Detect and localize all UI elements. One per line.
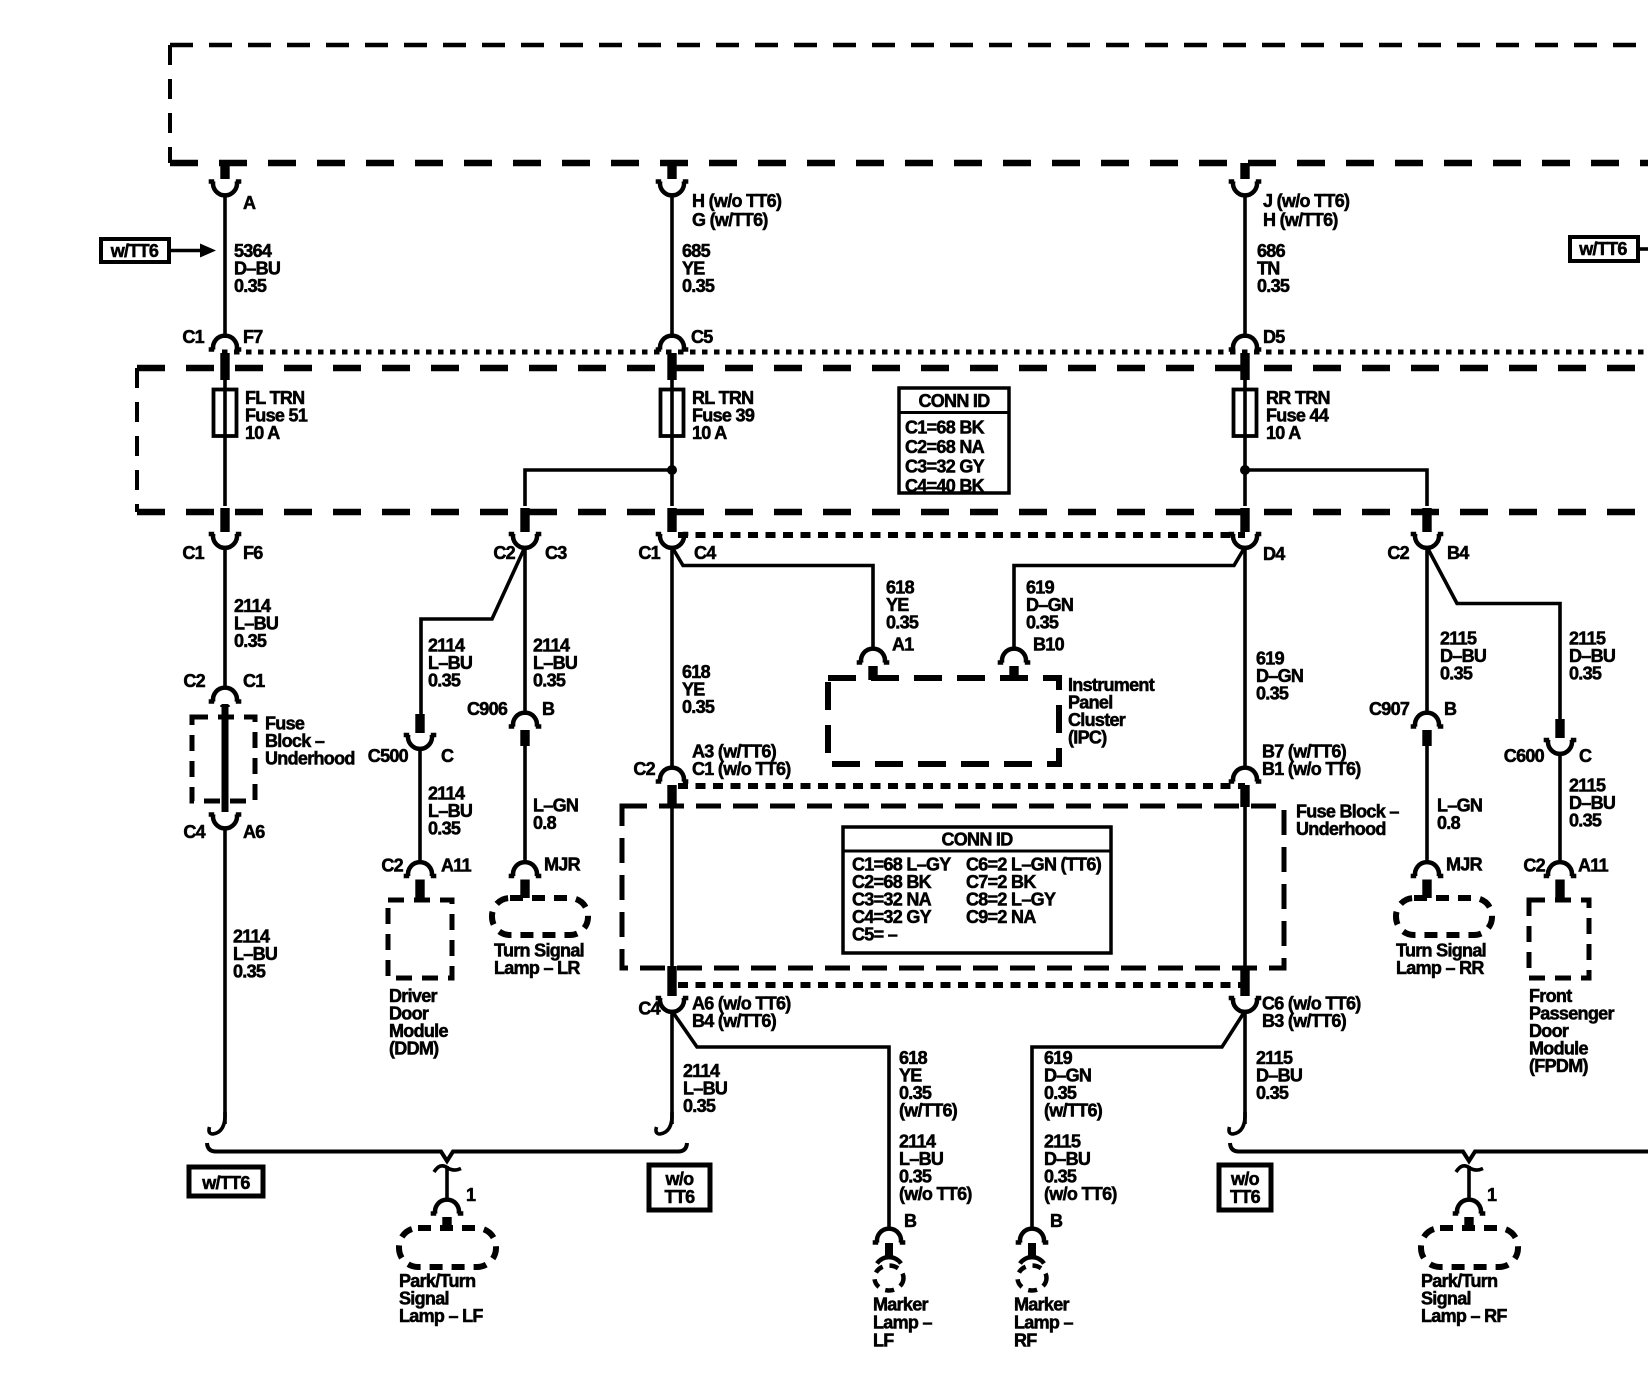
connector 1 (park RF) bbox=[1453, 1200, 1486, 1230]
svg-text:C2: C2 bbox=[493, 543, 515, 563]
svg-text:Marker: Marker bbox=[873, 1295, 929, 1315]
value label 2114 L-BU 0.35 (w/o TT6) marker LF bbox=[899, 1132, 972, 1205]
wire 2115 D-BU to bottom (right center) bbox=[1243, 1011, 1247, 1124]
value label 619 D-GN 0.35 (IPC branch) bbox=[1026, 578, 1073, 633]
value label 2114 L-BU 0.35 (DDM) bbox=[428, 784, 472, 839]
top harness dashed box left edge bbox=[168, 45, 172, 163]
wire 2114 L-BU to DDM bbox=[418, 748, 422, 864]
svg-text:0.35: 0.35 bbox=[533, 671, 566, 691]
svg-text:10 A: 10 A bbox=[692, 423, 727, 443]
svg-text:D5: D5 bbox=[1263, 327, 1285, 347]
CONN ID table (body harness) bbox=[843, 827, 1111, 953]
value label 618 YE 0.35 (mid) bbox=[682, 662, 715, 717]
svg-text:0.35: 0.35 bbox=[1256, 684, 1289, 704]
svg-text:C906: C906 bbox=[467, 699, 508, 719]
connector B7/B1 bbox=[1229, 768, 1262, 807]
connector pin B10 bbox=[998, 649, 1031, 680]
svg-text:10 A: 10 A bbox=[1266, 423, 1301, 443]
svg-text:0.8: 0.8 bbox=[1437, 813, 1461, 833]
value label 619 D-GN 0.35 (mid) bbox=[1256, 649, 1303, 704]
label RR TRN Fuse 44 10 A bbox=[1266, 388, 1330, 443]
CONN ID table (fuse block) bbox=[899, 388, 1009, 496]
labels C2 / C1 bbox=[183, 671, 265, 691]
svg-text:F6: F6 bbox=[243, 543, 263, 563]
wire 2114 L-BU diagonal to C500 bbox=[421, 547, 525, 715]
connector B (marker RF) bbox=[1016, 1229, 1049, 1264]
svg-text:A: A bbox=[243, 193, 256, 213]
svg-text:C1: C1 bbox=[182, 543, 204, 563]
label RL TRN Fuse 39 10 A bbox=[692, 388, 755, 443]
labels C1 / F7 bbox=[182, 327, 263, 347]
connector C907/B bbox=[1411, 713, 1444, 746]
label Park/Turn Signal Lamp - RF bbox=[1421, 1271, 1507, 1326]
svg-text:0.35: 0.35 bbox=[682, 276, 715, 296]
value label 618 YE 0.35 (IPC branch) bbox=[886, 578, 919, 633]
right options brace bbox=[1230, 1143, 1648, 1161]
svg-text:Lamp – LF: Lamp – LF bbox=[399, 1306, 483, 1326]
marker lamp RF dashed circle bbox=[1018, 1266, 1047, 1291]
wire 685 YE upper segment bbox=[670, 194, 674, 338]
label MJR (left) bbox=[544, 855, 581, 875]
svg-text:A1: A1 bbox=[892, 635, 914, 655]
label 1 (park LF) bbox=[466, 1185, 476, 1205]
svg-text:C500: C500 bbox=[368, 746, 409, 766]
svg-text:H (w/TT6): H (w/TT6) bbox=[1263, 210, 1338, 230]
branch wire to C2/B4 bbox=[1245, 470, 1427, 506]
svg-text:CONN ID: CONN ID bbox=[941, 830, 1013, 850]
label D5 bbox=[1263, 327, 1285, 347]
svg-text:B10: B10 bbox=[1033, 635, 1065, 655]
label Turn Signal Lamp - LR bbox=[494, 941, 584, 979]
wire 2114 L-BU long segment to bottom bbox=[223, 828, 227, 1125]
labels H (w/o TT6) / G (w/TT6) bbox=[692, 191, 782, 230]
svg-text:B1 (w/o TT6): B1 (w/o TT6) bbox=[1262, 759, 1361, 779]
svg-text:C1=68 BK: C1=68 BK bbox=[905, 418, 985, 438]
svg-text:w/TT6: w/TT6 bbox=[1578, 239, 1627, 259]
svg-text:C: C bbox=[1579, 746, 1592, 766]
label Front Passenger Door Module (FPDM) bbox=[1529, 986, 1614, 1076]
svg-text:B: B bbox=[542, 699, 555, 719]
label MJR (right) bbox=[1446, 855, 1483, 875]
wire 618 through conn-id region bbox=[670, 805, 674, 967]
labels C2 / B4 bbox=[1387, 543, 1469, 563]
label Driver Door Module (DDM) bbox=[389, 986, 448, 1059]
label 1 (park RF) bbox=[1487, 1185, 1497, 1205]
label Fuse Block - Underhood (left) bbox=[265, 714, 355, 769]
svg-text:C2: C2 bbox=[633, 759, 655, 779]
top harness dashed box bottom edge (thick dashed) bbox=[170, 160, 1648, 167]
labels C500 / C bbox=[368, 746, 454, 766]
svg-text:Marker: Marker bbox=[1014, 1295, 1070, 1315]
svg-text:B4: B4 bbox=[1447, 543, 1469, 563]
junction dot at fuse 39 output bbox=[667, 465, 677, 475]
label FL TRN Fuse 51 10 A bbox=[245, 388, 308, 443]
fuse RL TRN Fuse 39 bbox=[661, 390, 684, 437]
connector MJR (left) bbox=[509, 862, 542, 898]
marker lamp LF dashed circle bbox=[875, 1266, 904, 1291]
connector H/G (top) bbox=[656, 163, 689, 195]
label Marker Lamp - LF bbox=[873, 1295, 933, 1351]
svg-text:Lamp –: Lamp – bbox=[1014, 1313, 1074, 1333]
svg-text:1: 1 bbox=[1487, 1185, 1497, 1205]
fuse block box left edge bbox=[135, 368, 139, 512]
value label 2114 L-BU 0.35 (lower left) bbox=[233, 927, 277, 982]
svg-text:TT6: TT6 bbox=[1230, 1187, 1261, 1207]
value label 5364 D-BU 0.35 bbox=[234, 241, 280, 296]
labels C2 / A11 (FPDM) bbox=[1523, 856, 1608, 876]
value label 2114 L-BU 0.35 (to C500) bbox=[428, 636, 472, 691]
svg-text:TT6: TT6 bbox=[665, 1187, 696, 1207]
svg-text:MJR: MJR bbox=[1446, 855, 1483, 875]
svg-text:0.35: 0.35 bbox=[1257, 276, 1290, 296]
svg-text:MJR: MJR bbox=[544, 855, 581, 875]
labels C4 / A6 (w/o TT6) / B4 (w/TT6) bbox=[638, 994, 791, 1032]
connector C6/B3 bbox=[1229, 966, 1262, 1012]
svg-text:0.35: 0.35 bbox=[682, 697, 715, 717]
value label 2114 L-BU 0.35 (to C906) bbox=[533, 636, 577, 691]
svg-text:(FPDM): (FPDM) bbox=[1529, 1056, 1588, 1076]
inline connector hook (park RF) bbox=[1456, 1166, 1483, 1172]
svg-text:C9=2 NA: C9=2 NA bbox=[966, 907, 1036, 927]
labels C2 / C3 bbox=[493, 543, 567, 563]
svg-text:C2: C2 bbox=[1387, 543, 1409, 563]
svg-text:C2: C2 bbox=[183, 671, 205, 691]
fuse block underhood small dashed box bbox=[192, 717, 255, 801]
wire 5364 D-BU upper segment bbox=[223, 194, 227, 338]
dotted harness boundary line (C1 connector row) bbox=[222, 350, 1648, 355]
svg-text:(w/o TT6): (w/o TT6) bbox=[899, 1184, 972, 1204]
svg-text:A11: A11 bbox=[441, 856, 472, 876]
svg-text:Lamp – LR: Lamp – LR bbox=[494, 958, 580, 978]
value label L-GN 0.8 (right) bbox=[1437, 796, 1482, 834]
value label 686 TN 0.35 bbox=[1257, 241, 1290, 296]
value label 618 YE 0.35 (w/TT6) marker LF bbox=[899, 1048, 958, 1121]
wire L-GN 0.8 to MJR (right) bbox=[1425, 746, 1429, 864]
wire branch to marker lamp LF bbox=[672, 1011, 889, 1230]
svg-text:0.35: 0.35 bbox=[1026, 613, 1059, 633]
turn signal lamp RR dashed oval bbox=[1396, 898, 1492, 935]
underhood harness dashed box bbox=[622, 806, 1284, 968]
branch wire to C2/C3 bbox=[525, 470, 672, 506]
connector C1/F6 bbox=[209, 508, 242, 548]
svg-text:B: B bbox=[904, 1211, 917, 1231]
wire 686 TN upper segment bbox=[1243, 194, 1247, 338]
connector C2/A11 (DDM) bbox=[404, 862, 437, 899]
wire end hook (right center wire) bbox=[1229, 1112, 1245, 1134]
svg-text:B: B bbox=[1444, 699, 1457, 719]
connector C500/C bbox=[404, 714, 437, 749]
connector B (marker LF) bbox=[873, 1229, 906, 1264]
svg-text:C5= –: C5= – bbox=[852, 925, 898, 945]
connector C1/C4 bbox=[656, 508, 689, 548]
svg-text:w/o: w/o bbox=[1230, 1169, 1260, 1189]
label C5 bbox=[691, 327, 713, 347]
connector C5 bbox=[656, 336, 689, 380]
arrow from w/TT6 tag to wire 5364 bbox=[169, 244, 216, 258]
connector D4 bbox=[1229, 508, 1262, 548]
connector C2/C3 bbox=[509, 508, 542, 548]
value label 2115 D-BU 0.35 (to C600) bbox=[1569, 629, 1615, 684]
svg-text:0.35: 0.35 bbox=[233, 962, 266, 982]
wire 2115 D-BU to FPDM bbox=[1558, 753, 1562, 864]
svg-text:C2: C2 bbox=[1523, 856, 1545, 876]
wire 618 YE mid segment bbox=[670, 547, 674, 769]
svg-text:C1 (w/o TT6): C1 (w/o TT6) bbox=[692, 759, 791, 779]
svg-text:0.35: 0.35 bbox=[234, 276, 267, 296]
fuse block box top edge (thick dashed) bbox=[137, 365, 1648, 372]
left options brace bbox=[207, 1143, 687, 1161]
dotted boundary line lower (IPC harness) bbox=[678, 982, 1245, 988]
wire L-GN 0.8 to MJR (left) bbox=[523, 746, 527, 864]
wire into fuse 51 bbox=[223, 380, 227, 506]
svg-text:0.35: 0.35 bbox=[428, 819, 461, 839]
svg-text:0.35: 0.35 bbox=[1569, 811, 1602, 831]
labels B7 (w/TT6) / B1 (w/o TT6) bbox=[1262, 742, 1361, 780]
label Park/Turn Signal Lamp - LF bbox=[399, 1271, 483, 1326]
wire 619 D-GN mid segment bbox=[1243, 547, 1247, 769]
fuse FL TRN Fuse 51 bbox=[214, 390, 237, 437]
wire 619 D-GN branch to IPC pin B10 bbox=[1014, 547, 1245, 650]
value label 2115 D-BU 0.35 (FPDM) bbox=[1569, 776, 1615, 831]
label A bbox=[243, 193, 256, 213]
wire 2114 L-BU to bottom (center) bbox=[670, 1011, 674, 1124]
connector MJR (right) bbox=[1411, 862, 1444, 898]
svg-text:1: 1 bbox=[466, 1185, 476, 1205]
svg-text:Lamp – RR: Lamp – RR bbox=[1396, 958, 1484, 978]
connector C2/B4 bbox=[1411, 508, 1444, 548]
connector 1 (park LF) bbox=[431, 1200, 464, 1230]
thick pass-through wire in fuse block underhood bbox=[222, 704, 229, 812]
w/TT6 tag box (left) bbox=[101, 239, 169, 262]
svg-text:C2=68 NA: C2=68 NA bbox=[905, 437, 985, 457]
driver door module dashed box bbox=[388, 900, 452, 978]
connector pin A1 bbox=[857, 649, 890, 680]
svg-text:C3=32 GY: C3=32 GY bbox=[905, 457, 985, 477]
svg-text:C4: C4 bbox=[183, 822, 205, 842]
dotted boundary line upper (IPC harness) bbox=[678, 783, 1245, 789]
wire 618 YE branch to IPC pin A1 bbox=[672, 547, 873, 650]
connector C4 (A6/B4) bbox=[656, 966, 689, 1012]
label Marker Lamp - RF bbox=[1014, 1295, 1074, 1351]
svg-text:(w/o TT6): (w/o TT6) bbox=[1044, 1184, 1117, 1204]
w/TT6 tag box (right) bbox=[1570, 237, 1648, 261]
value label 685 YE 0.35 bbox=[682, 241, 715, 296]
label B10 bbox=[1033, 635, 1065, 655]
fuse RR TRN Fuse 44 bbox=[1234, 390, 1257, 437]
svg-text:10 A: 10 A bbox=[245, 423, 280, 443]
labels C907 / B bbox=[1369, 699, 1457, 719]
svg-text:G (w/TT6): G (w/TT6) bbox=[692, 210, 768, 230]
wire branch to marker lamp RF bbox=[1032, 1011, 1245, 1230]
svg-text:0.35: 0.35 bbox=[234, 631, 267, 651]
connector C2/A11 (FPDM) bbox=[1544, 862, 1577, 899]
front passenger door module dashed box bbox=[1529, 900, 1589, 978]
labels C6 (w/o TT6) / B3 (w/TT6) bbox=[1262, 994, 1361, 1032]
label Fuse Block - Underhood (right) bbox=[1296, 802, 1399, 840]
svg-text:0.35: 0.35 bbox=[1256, 1083, 1289, 1103]
value label 619 D-GN 0.35 (w/TT6) marker RF bbox=[1044, 1048, 1103, 1121]
instrument panel cluster dashed box bbox=[828, 678, 1059, 764]
svg-text:A11: A11 bbox=[1578, 856, 1609, 876]
wire into fuse 44 bbox=[1243, 380, 1247, 506]
svg-text:D4: D4 bbox=[1263, 544, 1285, 564]
svg-text:w/TT6: w/TT6 bbox=[201, 1173, 250, 1193]
svg-text:C: C bbox=[441, 746, 454, 766]
svg-text:0.35: 0.35 bbox=[683, 1096, 716, 1116]
wire 2114 L-BU to C906 bbox=[523, 547, 527, 715]
svg-text:(IPC): (IPC) bbox=[1068, 728, 1107, 748]
fuse block box bottom edge (thick dashed) bbox=[137, 509, 1648, 516]
svg-text:C4: C4 bbox=[638, 999, 660, 1019]
connector C1/F7 bbox=[209, 336, 242, 380]
svg-text:LF: LF bbox=[873, 1331, 894, 1351]
svg-text:C1: C1 bbox=[182, 327, 204, 347]
park/turn signal lamp RF dashed oval bbox=[1421, 1228, 1518, 1267]
svg-text:(w/TT6): (w/TT6) bbox=[899, 1101, 958, 1121]
wire 619 through conn-id region bbox=[1243, 805, 1247, 967]
labels C906 / B bbox=[467, 699, 555, 719]
labels C600 / C bbox=[1504, 746, 1592, 766]
svg-text:B3 (w/TT6): B3 (w/TT6) bbox=[1262, 1011, 1347, 1031]
label A1 bbox=[892, 635, 914, 655]
svg-text:Underhood: Underhood bbox=[265, 749, 355, 769]
connector D5 bbox=[1229, 336, 1262, 380]
wire into fuse 39 bbox=[670, 380, 674, 506]
dotted boundary line between C1/C4 and D4 bbox=[678, 532, 1245, 538]
connector C4/A6 cup bbox=[209, 814, 242, 828]
svg-text:B: B bbox=[1050, 1211, 1063, 1231]
connector C906/B bbox=[509, 713, 542, 746]
junction dot at fuse 44 output bbox=[1240, 465, 1250, 475]
labels J (w/o TT6) / H (w/TT6) bbox=[1263, 191, 1350, 230]
w/o TT6 tag box (bottom right) bbox=[1219, 1165, 1271, 1210]
value label 2114 L-BU 0.35 (upper left) bbox=[234, 596, 278, 651]
wire end hook (center wire) bbox=[656, 1112, 672, 1134]
wire to park/turn lamp RF bbox=[1467, 1166, 1471, 1201]
wire to park/turn lamp LF bbox=[445, 1166, 449, 1201]
svg-text:J (w/o TT6): J (w/o TT6) bbox=[1263, 191, 1350, 211]
park/turn signal lamp LF dashed oval bbox=[399, 1228, 496, 1267]
svg-text:C4=40 BK: C4=40 BK bbox=[905, 476, 985, 496]
svg-text:C2: C2 bbox=[381, 856, 403, 876]
labels C2 / A3 / C1 bbox=[633, 742, 791, 780]
value label 2115 D-BU 0.35 (to C907) bbox=[1440, 629, 1486, 684]
value label 2115 D-BU 0.35 (w/o TT6) marker RF bbox=[1044, 1132, 1117, 1205]
svg-text:C4: C4 bbox=[694, 543, 716, 563]
svg-text:CONN ID: CONN ID bbox=[918, 391, 990, 411]
value label 2114 L-BU 0.35 (center bottom) bbox=[683, 1061, 727, 1116]
connector J/H (top) bbox=[1229, 163, 1262, 195]
svg-text:0.35: 0.35 bbox=[428, 671, 461, 691]
label B (marker LF) bbox=[904, 1211, 917, 1231]
wire 2115 D-BU diagonal to C600 bbox=[1427, 547, 1560, 719]
label Turn Signal Lamp - RR bbox=[1396, 941, 1486, 979]
svg-text:RF: RF bbox=[1014, 1331, 1037, 1351]
svg-text:0.8: 0.8 bbox=[533, 813, 557, 833]
svg-text:0.35: 0.35 bbox=[1440, 664, 1473, 684]
w/TT6 tag box (bottom left) bbox=[189, 1167, 263, 1196]
svg-text:B4 (w/TT6): B4 (w/TT6) bbox=[692, 1011, 777, 1031]
labels C1 / C4 bbox=[638, 543, 716, 563]
connector C2/C1 bbox=[209, 688, 242, 707]
top harness dashed box top edge bbox=[170, 43, 1648, 48]
w/o TT6 tag box (bottom center) bbox=[649, 1165, 710, 1210]
svg-text:C5: C5 bbox=[691, 327, 713, 347]
svg-text:Lamp – RF: Lamp – RF bbox=[1421, 1306, 1507, 1326]
svg-text:C907: C907 bbox=[1369, 699, 1410, 719]
connector C600/C bbox=[1544, 719, 1577, 754]
wire 2115 D-BU to C907 bbox=[1425, 547, 1429, 715]
value label L-GN 0.8 (left) bbox=[533, 796, 578, 834]
svg-text:0.35: 0.35 bbox=[1569, 664, 1602, 684]
svg-text:C1: C1 bbox=[638, 543, 660, 563]
svg-text:Lamp –: Lamp – bbox=[873, 1313, 933, 1333]
svg-text:H (w/o TT6): H (w/o TT6) bbox=[692, 191, 782, 211]
svg-text:F7: F7 bbox=[243, 327, 263, 347]
label D4 bbox=[1263, 544, 1285, 564]
svg-text:(DDM): (DDM) bbox=[389, 1039, 439, 1059]
label Instrument Panel Cluster (IPC) bbox=[1068, 675, 1155, 748]
connector A (top, w/TT6 feed) bbox=[209, 163, 242, 195]
svg-text:A6: A6 bbox=[243, 822, 265, 842]
labels C4 / A6 bbox=[183, 822, 265, 842]
svg-text:C1: C1 bbox=[243, 671, 265, 691]
label B (marker RF) bbox=[1050, 1211, 1063, 1231]
labels C2 / A11 (DDM) bbox=[381, 856, 471, 876]
svg-text:w/TT6: w/TT6 bbox=[110, 241, 159, 261]
labels C1 / F6 bbox=[182, 543, 263, 563]
turn signal lamp LR dashed oval bbox=[492, 898, 588, 935]
wire 2114 L-BU (upper) bbox=[223, 547, 227, 689]
svg-text:w/o: w/o bbox=[665, 1169, 695, 1189]
svg-text:(w/TT6): (w/TT6) bbox=[1044, 1101, 1103, 1121]
inline connector hook (park LF) bbox=[434, 1166, 461, 1172]
wire end hook (left wire) bbox=[209, 1112, 225, 1134]
svg-text:C600: C600 bbox=[1504, 746, 1545, 766]
svg-text:C3: C3 bbox=[545, 543, 567, 563]
svg-text:Underhood: Underhood bbox=[1296, 819, 1386, 839]
connector C2 (A3/C1) bbox=[656, 768, 689, 807]
value label 2115 D-BU 0.35 (right center bottom) bbox=[1256, 1048, 1302, 1103]
svg-text:0.35: 0.35 bbox=[886, 613, 919, 633]
